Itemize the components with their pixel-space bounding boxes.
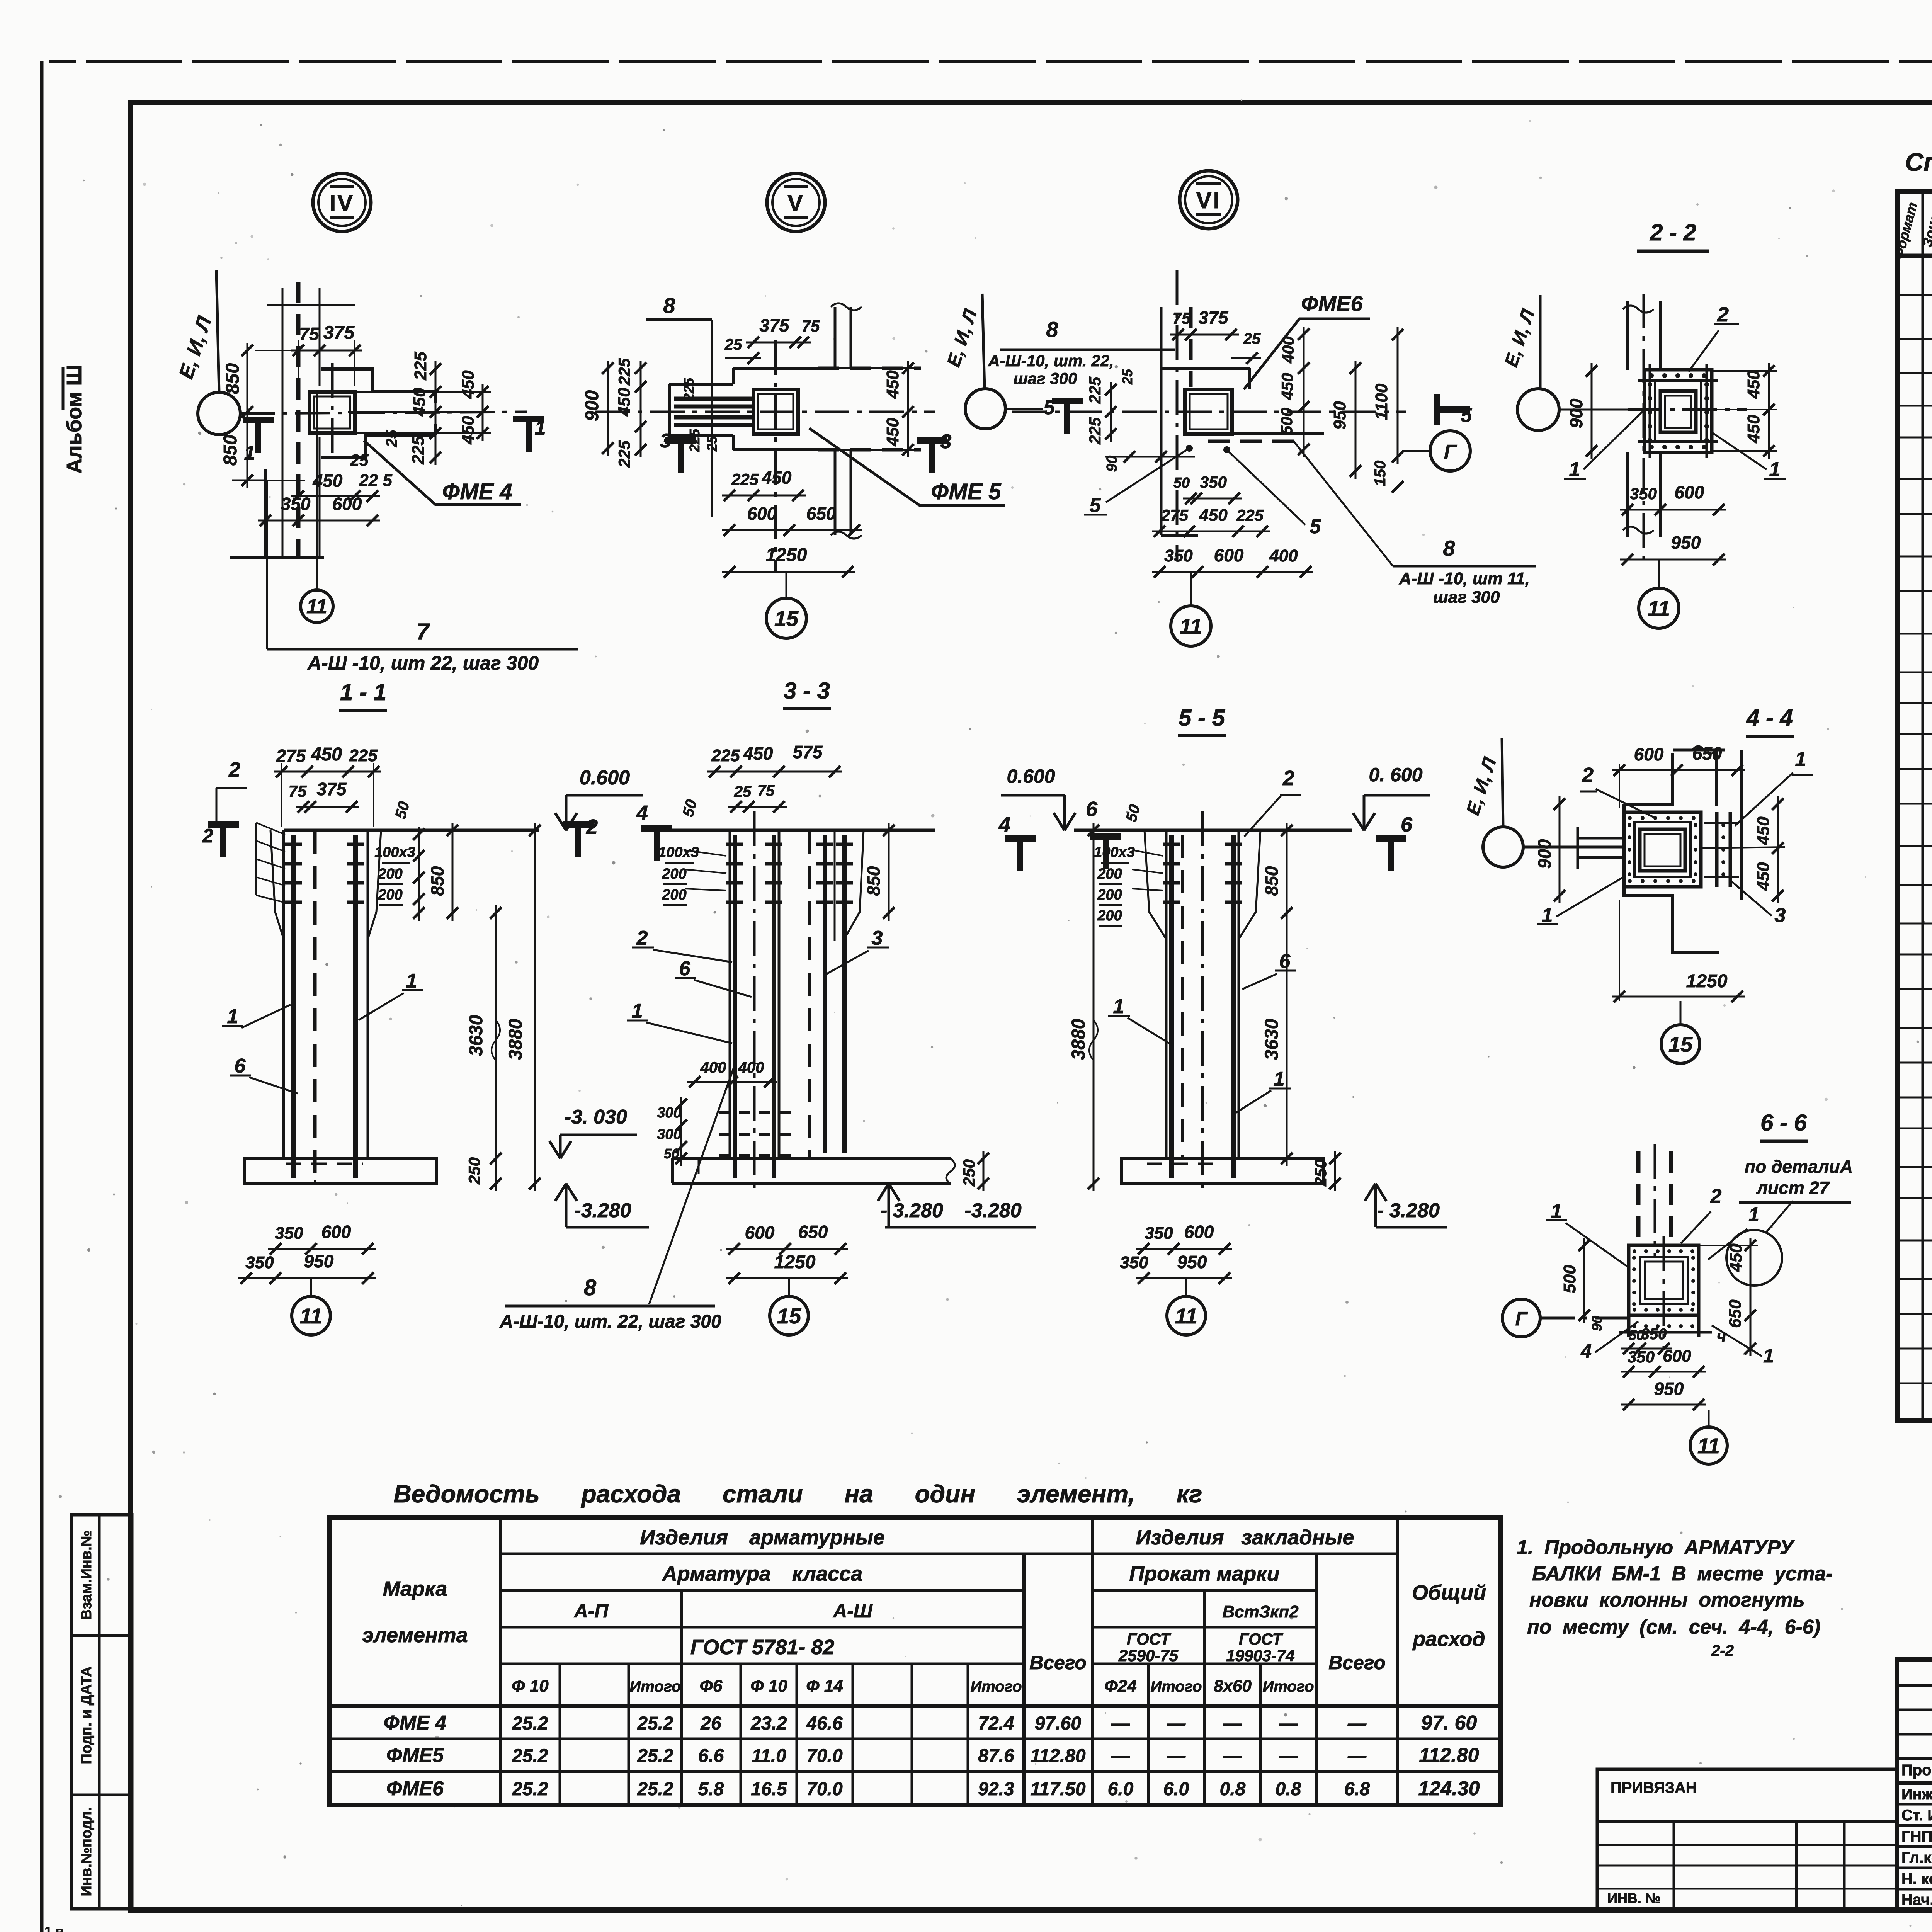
svg-text:450: 450 — [1744, 415, 1763, 444]
svg-text:8: 8 — [1046, 317, 1058, 342]
svg-text:200: 200 — [1097, 866, 1122, 882]
svg-text:3880: 3880 — [505, 1019, 526, 1060]
plan 6-6 mesh square — [1629, 1245, 1699, 1315]
svg-text:25: 25 — [383, 430, 400, 447]
svg-text:ФМЕ 5: ФМЕ 5 — [931, 479, 1001, 504]
svg-text:лист 27: лист 27 — [1756, 1178, 1830, 1198]
svg-text:225: 225 — [1236, 506, 1264, 524]
plan IV top dims — [291, 350, 362, 352]
svg-text:112.80: 112.80 — [1030, 1746, 1086, 1766]
svg-text:3 - 3: 3 - 3 — [784, 678, 830, 704]
svg-text:225: 225 — [1086, 376, 1104, 404]
svg-text:ГОСТ 5781- 82: ГОСТ 5781- 82 — [690, 1636, 835, 1659]
svg-text:—: — — [1111, 1713, 1130, 1734]
svg-text:600: 600 — [1675, 482, 1704, 502]
svg-text:450: 450 — [1754, 816, 1773, 845]
svg-text:3880: 3880 — [1068, 1019, 1089, 1060]
svg-text:350: 350 — [1630, 485, 1657, 503]
svg-text:70.0: 70.0 — [806, 1746, 843, 1766]
svg-text:Изделия закладные: Изделия закладные — [1136, 1526, 1354, 1549]
svg-text:2: 2 — [228, 758, 240, 781]
svg-text:225: 225 — [409, 436, 428, 465]
svg-text:4: 4 — [636, 801, 648, 825]
elev 3-3 dim 850 right — [888, 823, 890, 921]
plan 4-4 footing outline — [1624, 753, 1673, 804]
plan 2-2 wall — [1626, 301, 1629, 370]
svg-text:3: 3 — [940, 430, 952, 453]
elev 1-1 column — [282, 830, 285, 1158]
plan VI pos 8 callout right — [1294, 441, 1393, 566]
svg-text:5.8: 5.8 — [698, 1779, 724, 1799]
svg-text:15: 15 — [1668, 1032, 1693, 1056]
svg-text:6.8: 6.8 — [1344, 1779, 1370, 1799]
plan 6-6 bubble 11 — [1690, 1427, 1727, 1464]
svg-text:1: 1 — [1569, 458, 1580, 481]
elev 5-5 ground line — [1074, 829, 1352, 832]
svg-text:ГОСТ: ГОСТ — [1239, 1630, 1284, 1648]
plan IV column square — [310, 392, 355, 433]
elev 1-1 ground line — [284, 829, 539, 832]
svg-text:200: 200 — [662, 866, 686, 882]
svg-text:25.2: 25.2 — [512, 1746, 548, 1766]
svg-text:-3. 030: -3. 030 — [565, 1106, 627, 1128]
svg-text:25.2: 25.2 — [512, 1779, 548, 1799]
plan V label FME5 — [809, 428, 1005, 505]
elev 3-3 top dims — [707, 771, 842, 773]
plan 6-6 right dims — [1750, 1238, 1752, 1356]
plan 4-4 axis circle — [1483, 827, 1523, 867]
elev 3-3 dims 400 400 — [687, 1081, 777, 1083]
elev 3-3 column — [729, 830, 731, 1158]
svg-text:450: 450 — [615, 388, 634, 417]
svg-text:Ф 10: Ф 10 — [750, 1677, 787, 1696]
svg-text:Всего: Всего — [1328, 1652, 1386, 1673]
svg-text:350: 350 — [1200, 473, 1227, 491]
svg-text:90: 90 — [1589, 1316, 1605, 1331]
svg-text:22 5: 22 5 — [359, 471, 392, 490]
plan VI axis circle G — [1430, 431, 1470, 471]
svg-text:450: 450 — [1744, 370, 1763, 399]
svg-text:11: 11 — [1180, 614, 1202, 638]
svg-text:200: 200 — [378, 887, 402, 903]
svg-text:600: 600 — [1214, 545, 1244, 565]
elev 5-5 dims right 850/3630 — [1286, 823, 1288, 1166]
svg-text:—: — — [1223, 1713, 1242, 1734]
svg-text:2-2: 2-2 — [1711, 1642, 1734, 1659]
svg-text:6: 6 — [1279, 950, 1291, 973]
plan 2-2 bubble 11 — [1639, 588, 1679, 628]
plan V slot rebar bundle — [674, 397, 753, 401]
grid bubble IV — [313, 173, 371, 231]
svg-text:150: 150 — [1372, 461, 1389, 486]
svg-text:Итого: Итого — [1262, 1678, 1314, 1695]
elev 5-5 column — [1165, 830, 1168, 1158]
svg-text:1: 1 — [1542, 904, 1553, 927]
plan IV wall — [282, 288, 284, 558]
plan VI left dims — [1110, 382, 1112, 442]
svg-text:600: 600 — [747, 503, 777, 524]
plan IV lower wall footing outline — [264, 469, 267, 558]
svg-text:950: 950 — [1671, 532, 1701, 553]
plan 4-4 dim 1250 — [1612, 996, 1745, 998]
elev 1-1 mark 2 right — [563, 821, 594, 828]
svg-text:11: 11 — [1697, 1434, 1720, 1458]
svg-text:-3.280: -3.280 — [964, 1199, 1022, 1222]
svg-text:900: 900 — [1566, 398, 1586, 428]
svg-text:2: 2 — [202, 825, 213, 847]
svg-text:575: 575 — [793, 742, 823, 762]
svg-text:2: 2 — [1282, 767, 1294, 790]
elev 3-3 anchor hooks — [726, 843, 743, 846]
svg-text:6: 6 — [1401, 813, 1413, 836]
svg-text:25: 25 — [734, 783, 752, 800]
svg-text:1250: 1250 — [766, 545, 807, 565]
svg-text:600: 600 — [1663, 1347, 1691, 1366]
svg-text:225: 225 — [731, 470, 759, 488]
svg-text:6: 6 — [679, 957, 691, 980]
svg-text:Итого: Итого — [629, 1678, 681, 1695]
spec table frame — [1898, 191, 1932, 1421]
svg-text:8: 8 — [584, 1275, 597, 1300]
svg-text:50: 50 — [1122, 803, 1143, 823]
svg-text:Инж.: Инж. — [1901, 1786, 1932, 1803]
title block frame — [1897, 1660, 1932, 1910]
svg-text:0.600: 0.600 — [580, 767, 630, 789]
plan 2-2 axis circle — [1517, 389, 1559, 430]
scan speckles — [925, 350, 928, 353]
elev 1-1 dim 850 — [452, 823, 454, 921]
plan 4-4 dim 900 — [1559, 796, 1561, 903]
svg-text:200: 200 — [378, 866, 402, 882]
svg-text:200: 200 — [1097, 908, 1122, 924]
svg-text:225: 225 — [349, 746, 378, 765]
elev 1-1 dims 3630/3880 — [495, 905, 497, 1191]
plan 6-6 left dims — [1583, 1238, 1585, 1323]
svg-text:ГНП: ГНП — [1901, 1828, 1932, 1845]
plan 2-2 mesh bar ticks — [1638, 379, 1718, 382]
plan 2-2 mesh square — [1645, 370, 1712, 452]
svg-text:1: 1 — [1763, 1345, 1774, 1367]
svg-text:8: 8 — [663, 293, 675, 318]
plan IV axis line — [240, 412, 527, 413]
plan IV footing outline — [321, 369, 436, 392]
svg-text:950: 950 — [1654, 1379, 1684, 1399]
plan 4-4 mesh dots — [1628, 816, 1632, 820]
svg-text:—: — — [1347, 1746, 1367, 1766]
svg-text:А-Ш-10, шт. 22, шаг 300: А-Ш-10, шт. 22, шаг 300 — [499, 1311, 721, 1332]
svg-text:375: 375 — [323, 323, 355, 343]
plan V wall vertical — [834, 307, 837, 368]
svg-text:—: — — [1223, 1746, 1242, 1766]
svg-text:87.6: 87.6 — [978, 1746, 1014, 1766]
svg-text:Общий: Общий — [1412, 1581, 1486, 1604]
svg-text:350: 350 — [1628, 1348, 1655, 1366]
svg-text:850: 850 — [220, 435, 241, 466]
svg-text:ФМЕ 4: ФМЕ 4 — [384, 1712, 447, 1734]
svg-text:Ф 14: Ф 14 — [806, 1677, 843, 1696]
svg-text:1: 1 — [632, 1000, 643, 1022]
svg-text:92.3: 92.3 — [978, 1779, 1014, 1799]
svg-text:Формат: Формат — [1890, 201, 1920, 261]
svg-text:600: 600 — [321, 1222, 351, 1242]
plan VI label FME6 — [1244, 319, 1370, 389]
svg-text:3630: 3630 — [1262, 1019, 1282, 1060]
plan 4-4 wall stub left — [1578, 837, 1624, 840]
svg-text:225: 225 — [711, 746, 740, 765]
plan V right dims 450/450 — [907, 361, 909, 457]
svg-text:А-Ш-10, шт. 22,: А-Ш-10, шт. 22, — [988, 352, 1114, 370]
svg-text:ФМЕ 4: ФМЕ 4 — [442, 479, 512, 504]
svg-text:4: 4 — [1580, 1340, 1592, 1362]
elev 5-5 rebar — [1169, 835, 1174, 1178]
svg-text:8: 8 — [1443, 536, 1455, 560]
plan 4-4 bubble 15 — [1661, 1025, 1700, 1063]
plan 2-2 bottom dims — [1620, 509, 1726, 511]
plan VI wall vertical — [1160, 307, 1163, 535]
svg-text:V: V — [787, 190, 804, 216]
svg-text:Подп. и ДАТА: Подп. и ДАТА — [78, 1666, 95, 1764]
svg-text:3: 3 — [1775, 904, 1786, 927]
plan 4-4 dims 450/450 — [1777, 796, 1779, 903]
svg-text:2: 2 — [636, 927, 648, 949]
svg-text:50: 50 — [392, 799, 413, 820]
svg-text:450: 450 — [1199, 506, 1228, 525]
plan V footing outline and slot — [733, 367, 835, 370]
elev 3-3 bubble 15 — [770, 1296, 808, 1335]
svg-text:Изделия арматурные: Изделия арматурные — [640, 1526, 885, 1549]
svg-text:600: 600 — [1634, 744, 1664, 764]
plan VI footing outline — [1161, 367, 1250, 370]
svg-text:6: 6 — [235, 1055, 246, 1077]
svg-text:275: 275 — [1161, 506, 1189, 524]
svg-text:1: 1 — [535, 417, 546, 439]
svg-text:4: 4 — [998, 813, 1010, 836]
svg-text:850: 850 — [864, 866, 884, 896]
svg-text:375: 375 — [1199, 308, 1229, 328]
plan VI rebar dots and 5 leaders — [1186, 445, 1193, 452]
plan IV axis circle E,I,L — [198, 392, 240, 435]
svg-text:350: 350 — [281, 494, 311, 514]
elev 1-1 anchor hooks — [285, 843, 302, 846]
elev 5-5 footing — [1121, 1158, 1324, 1183]
svg-text:3: 3 — [660, 430, 671, 452]
spec table row lines — [1898, 294, 1932, 296]
svg-text:1: 1 — [244, 442, 255, 464]
svg-text:650: 650 — [1726, 1299, 1745, 1328]
svg-text:112.80: 112.80 — [1419, 1744, 1479, 1767]
plan 2-2 mesh dots — [1649, 373, 1654, 378]
svg-text:2590-75: 2590-75 — [1118, 1646, 1179, 1665]
svg-text:1: 1 — [1113, 995, 1124, 1018]
svg-text:11: 11 — [1175, 1304, 1197, 1328]
svg-text:по деталиА: по деталиА — [1745, 1156, 1853, 1177]
svg-text:650: 650 — [806, 503, 836, 524]
svg-text:VI: VI — [1196, 187, 1221, 213]
svg-text:225: 225 — [615, 440, 633, 468]
svg-text:25: 25 — [704, 435, 720, 452]
svg-text:450: 450 — [459, 370, 478, 399]
svg-text:2: 2 — [1710, 1185, 1722, 1207]
plan VI axis horizontal — [1012, 411, 1406, 413]
svg-text:25: 25 — [1243, 330, 1261, 347]
svg-text:850: 850 — [1262, 866, 1282, 896]
svg-text:25.2: 25.2 — [637, 1713, 673, 1734]
elev 3-3 dim 250 — [983, 1151, 985, 1191]
svg-text:25: 25 — [724, 336, 742, 353]
svg-text:46.6: 46.6 — [806, 1713, 843, 1734]
svg-text:250: 250 — [960, 1159, 978, 1187]
svg-text:97.60: 97.60 — [1035, 1713, 1081, 1734]
svg-text:1: 1 — [1551, 1200, 1562, 1223]
svg-text:117.50: 117.50 — [1030, 1779, 1086, 1799]
svg-text:ПРИВЯЗАН: ПРИВЯЗАН — [1611, 1779, 1697, 1796]
svg-text:2: 2 — [1717, 303, 1729, 326]
svg-text:IV: IV — [330, 190, 355, 216]
svg-text:4 - 4: 4 - 4 — [1746, 705, 1793, 731]
svg-text:650: 650 — [798, 1222, 828, 1242]
svg-text:375: 375 — [317, 779, 347, 799]
svg-text:Г: Г — [1444, 441, 1457, 463]
svg-text:350: 350 — [275, 1224, 303, 1243]
svg-text:450: 450 — [762, 468, 792, 488]
svg-text:200: 200 — [662, 887, 686, 903]
plan 2-2 column square — [1660, 391, 1696, 432]
svg-text:ГОСТ: ГОСТ — [1127, 1630, 1172, 1648]
svg-text:100х3: 100х3 — [374, 844, 415, 861]
elev 3-3 bottom dims — [726, 1248, 848, 1250]
elev 1-1 footing — [244, 1158, 437, 1183]
svg-text:Прокат марки: Прокат марки — [1129, 1562, 1279, 1585]
svg-text:500: 500 — [1277, 408, 1296, 435]
svg-text:ИНВ. №: ИНВ. № — [1607, 1890, 1661, 1906]
svg-text:950: 950 — [1330, 401, 1349, 430]
svg-text:900: 900 — [1534, 839, 1554, 869]
svg-text:6.0: 6.0 — [1163, 1779, 1189, 1799]
svg-text:19903-74: 19903-74 — [1226, 1646, 1295, 1665]
plan VI bubble 11 — [1171, 606, 1211, 646]
svg-text:—: — — [1167, 1746, 1186, 1766]
svg-text:Е, И, Л: Е, И, Л — [175, 313, 216, 382]
svg-text:6.6: 6.6 — [698, 1746, 724, 1766]
svg-text:1 в: 1 в — [44, 1924, 63, 1932]
svg-text:3630: 3630 — [466, 1015, 486, 1056]
svg-text:Ф 10: Ф 10 — [512, 1677, 549, 1696]
svg-text:—: — — [1279, 1713, 1298, 1734]
svg-text:25: 25 — [1119, 369, 1135, 385]
svg-text:1: 1 — [406, 970, 417, 992]
svg-text:Н. контР: Н. контР — [1901, 1871, 1932, 1888]
plan 6-6 detail circle — [1726, 1230, 1782, 1286]
svg-text:11: 11 — [306, 595, 327, 618]
svg-text:100х3: 100х3 — [658, 844, 699, 861]
elev 5-5 taper — [1145, 830, 1166, 939]
svg-text:Итого: Итого — [1150, 1678, 1202, 1695]
svg-text:Арматура класса: Арматура класса — [662, 1562, 862, 1585]
elev 1-1 taper — [270, 830, 284, 939]
svg-text:5 - 5: 5 - 5 — [1179, 705, 1226, 731]
svg-text:Марка: Марка — [383, 1577, 447, 1600]
svg-text:600: 600 — [1184, 1222, 1214, 1242]
plan V left dims — [607, 361, 609, 456]
svg-text:1: 1 — [1274, 1068, 1285, 1090]
plan 4-4 column square — [1640, 829, 1685, 871]
elev 5-5 dim 250 — [1334, 1151, 1336, 1191]
svg-text:75: 75 — [802, 317, 820, 335]
svg-text:-3.280: -3.280 — [574, 1199, 631, 1222]
svg-text:Е, И, Л: Е, И, Л — [1463, 755, 1500, 818]
svg-text:450: 450 — [743, 743, 773, 764]
left margin stamp column — [71, 1515, 132, 1909]
plan 6-6 bottom dims — [1621, 1348, 1672, 1350]
plan IV right dim chain 450/450 — [482, 384, 484, 441]
svg-text:Г: Г — [1515, 1308, 1528, 1330]
elev 3-3 dashed hooks bottom — [719, 1111, 792, 1114]
elev 1-1 top dims — [274, 771, 381, 773]
svg-text:ВстЗкп2: ВстЗкп2 — [1222, 1602, 1299, 1621]
elev 1-1 bottom dims — [268, 1248, 376, 1250]
svg-text:400: 400 — [1269, 546, 1298, 565]
svg-text:А-Ш -10, шт 11,: А-Ш -10, шт 11, — [1399, 569, 1530, 588]
svg-text:ФМЕ6: ФМЕ6 — [386, 1777, 444, 1800]
svg-text:1: 1 — [1769, 458, 1781, 481]
plan 4-4 top dims — [1612, 769, 1745, 771]
svg-text:15: 15 — [774, 606, 799, 631]
svg-text:225: 225 — [411, 352, 430, 381]
svg-text:25.2: 25.2 — [512, 1713, 548, 1734]
plan IV label FME4 — [364, 440, 521, 505]
svg-text:Альбом Ш: Альбом Ш — [63, 365, 86, 473]
svg-text:5: 5 — [1090, 494, 1101, 517]
svg-text:шаг 300: шаг 300 — [1014, 369, 1077, 388]
svg-text:850: 850 — [223, 363, 243, 394]
svg-text:Ведомость расхода стали: Ведомость расхода стали на один элемент,… — [394, 1480, 1202, 1508]
svg-text:по месту (см. сеч. 4-4, 6-6): по месту (см. сеч. 4-4, 6-6) — [1527, 1616, 1820, 1638]
svg-text:72.4: 72.4 — [978, 1713, 1014, 1734]
svg-text:1100: 1100 — [1372, 383, 1391, 420]
svg-text:11: 11 — [300, 1304, 322, 1328]
svg-text:23.2: 23.2 — [750, 1713, 787, 1734]
svg-text:Взам.Инв.№: Взам.Инв.№ — [78, 1530, 95, 1620]
svg-text:250: 250 — [465, 1157, 483, 1185]
svg-text:450: 450 — [311, 744, 342, 765]
plan IV bottom dims — [291, 495, 380, 497]
svg-text:350: 350 — [1641, 1326, 1667, 1343]
svg-text:—: — — [1347, 1713, 1367, 1734]
svg-text:элемента: элемента — [362, 1624, 468, 1647]
elev 5-5 bottom dims — [1136, 1248, 1232, 1250]
svg-text:15: 15 — [777, 1304, 801, 1328]
svg-text:Провер.: Провер. — [1901, 1762, 1932, 1779]
plan VI axis circle E,I,L — [965, 389, 1005, 429]
plan V top dims — [746, 342, 811, 344]
svg-text:5: 5 — [1310, 515, 1321, 538]
elev 5-5 anchor hooks — [1163, 843, 1180, 846]
svg-text:450: 450 — [1278, 373, 1296, 400]
svg-text:1250: 1250 — [774, 1252, 816, 1272]
svg-text:75: 75 — [1173, 309, 1191, 327]
svg-text:Зона: Зона — [1919, 212, 1932, 249]
svg-text:25.2: 25.2 — [637, 1746, 673, 1766]
plan V bubble 15 — [766, 598, 806, 638]
svg-text:500: 500 — [1560, 1265, 1579, 1293]
svg-text:450: 450 — [1754, 862, 1773, 891]
svg-text:Е, И, Л: Е, И, Л — [1501, 306, 1539, 369]
svg-text:900: 900 — [582, 390, 602, 421]
plan IV left dims 850/850 — [247, 343, 248, 488]
page outer scan border — [40, 61, 44, 1932]
svg-text:225: 225 — [615, 358, 633, 386]
svg-text:11.0: 11.0 — [752, 1746, 786, 1766]
